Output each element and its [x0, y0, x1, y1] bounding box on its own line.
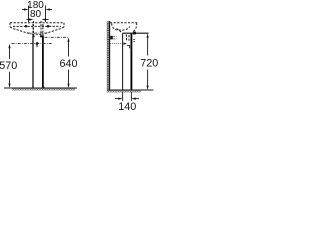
svg-text:140: 140	[118, 101, 136, 113]
svg-text:80: 80	[30, 9, 42, 20]
svg-text:570: 570	[0, 60, 17, 72]
svg-text:640: 640	[59, 58, 77, 70]
svg-text:720: 720	[140, 57, 158, 69]
